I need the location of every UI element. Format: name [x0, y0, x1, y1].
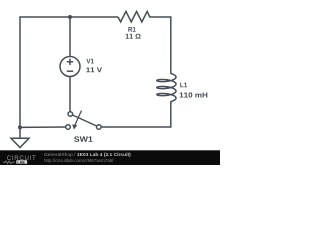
svg-text:GeneralShop / 1E03 Lab 4 (2.1: GeneralShop / 1E03 Lab 4 (2.1 Circuit) [44, 152, 131, 158]
svg-text:http://circuitlab.com/c/9t67ax: http://circuitlab.com/c/9t67axm7a5f [44, 158, 114, 163]
svg-text:LAB: LAB [17, 160, 25, 164]
